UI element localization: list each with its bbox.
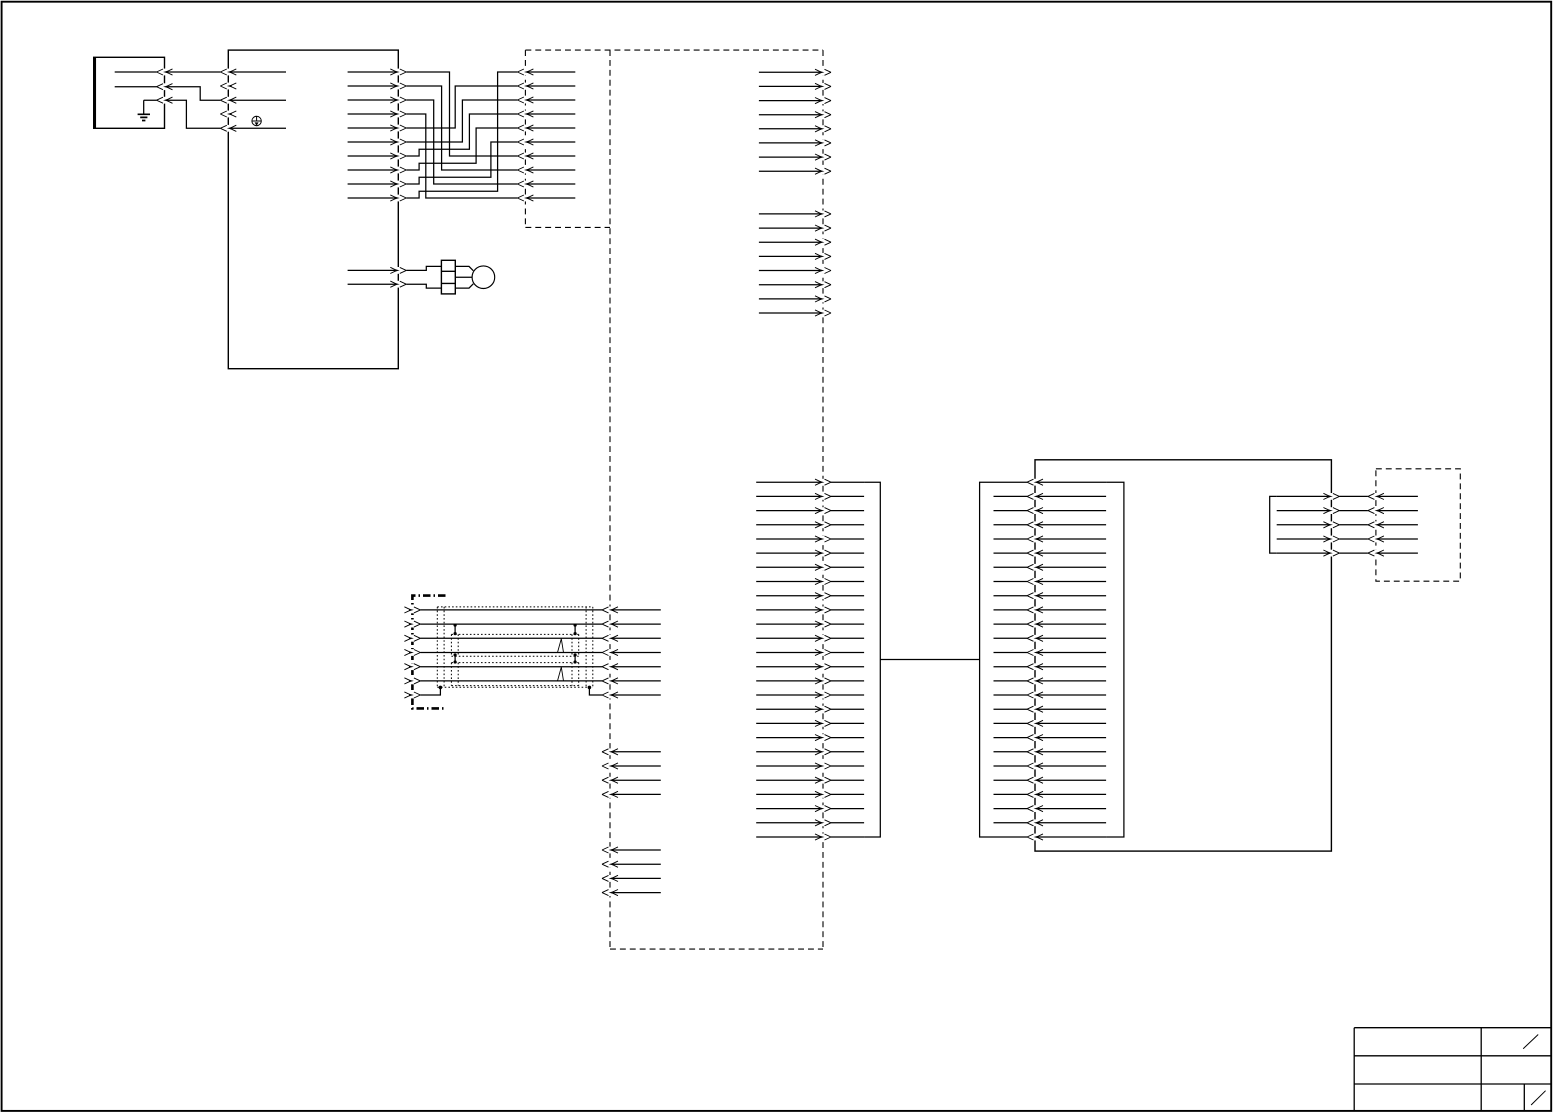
twisted-pair kink symbol 1 (558, 639, 564, 653)
wire harness W6 (U1 to connector, crossover) (348, 97, 576, 146)
connector block J1 (top-left battery box) (94, 57, 165, 128)
wire trunk (cable into U2) (994, 748, 1107, 755)
wire harness branch (to right connector) (759, 168, 831, 175)
wire trunk (harness to U2 cable) (756, 607, 864, 614)
junction dot (shield drain right) (588, 686, 592, 690)
wire shielded-cable core (404, 663, 660, 670)
wire trunk (cable into U2) (994, 678, 1107, 685)
wire harness branch group2 (to right connector) (759, 281, 831, 288)
wire harness W7 (U1 to connector, crossover) (348, 111, 576, 160)
wire trunk (cable into U2) (994, 763, 1107, 770)
wire trunk (harness to U2 cable) (756, 493, 864, 500)
harness boundary dashed segment (top horizontal) (525, 49, 823, 51)
title block slash mark 1 (1523, 1035, 1538, 1049)
wire harness branch group2 (to right connector) (759, 239, 831, 246)
wire harness W4 (U1 to connector, crossover) (348, 111, 576, 202)
wire stub at harness divider (602, 763, 661, 770)
wire shielded-cable core (404, 621, 660, 628)
wire trunk (cable into U2) (994, 819, 1107, 826)
harness boundary dashed segment (notch horizontal) (525, 226, 610, 228)
shield drain tie right 1 (574, 624, 577, 636)
wire harness W10 (U1 to connector, crossover) (348, 69, 576, 202)
wire trunk (harness to U2 cable) (756, 663, 864, 670)
wire trunk (harness to U2 cable) (756, 550, 864, 557)
wire trunk (harness to U2 cable) (756, 578, 864, 585)
shield drain tie right 2 (574, 653, 577, 663)
cable bundle bracket (central, right side) (864, 482, 880, 837)
wire trunk (cable into U2) (994, 635, 1107, 642)
wire trunk (harness to U2 cable) (756, 479, 864, 486)
wire stub at harness divider (602, 777, 661, 784)
wire trunk (cable into U2) (994, 521, 1107, 528)
wire trunk (cable into U2) (994, 564, 1107, 571)
wire lamp return - (348, 281, 442, 288)
wire harness branch group2 (to right connector) (759, 267, 831, 274)
connector pin arrow (U1 left edge, unused pin) (220, 111, 236, 118)
wire U2 output (to far-right connector) (1277, 493, 1418, 500)
wire harness branch group2 (to right connector) (759, 225, 831, 232)
wire lamp feed + (348, 266, 442, 273)
inner shield pair 1 (dotted capsule) (451, 634, 578, 656)
wire trunk (harness to U2 cable) (756, 791, 864, 798)
wire harness branch (to right connector) (759, 111, 831, 118)
wire harness W5 (U1 to connector, crossover) (348, 83, 576, 132)
wire U2 output (to far-right connector) (1277, 507, 1418, 514)
wire shielded-cable core (404, 678, 660, 685)
harness boundary dashed segment (left vertical) (524, 50, 526, 227)
wire group bracket (U2 output) (1270, 496, 1277, 553)
wire shielded-cable core (404, 607, 660, 614)
harness boundary dashed divider (center vertical) (609, 50, 611, 949)
wire shield drain (right) (589, 688, 660, 699)
wire harness branch (to right connector) (759, 125, 831, 132)
wire trunk (harness to U2 cable) (756, 734, 864, 741)
wire trunk (cable into U2) (994, 706, 1107, 713)
wire harness branch (to right connector) (759, 140, 831, 147)
wire trunk (cable into U2) (994, 649, 1107, 656)
wire trunk (harness to U2 cable) (756, 564, 864, 571)
wire trunk (cable into U2) (994, 507, 1107, 514)
outer cable shield (dotted capsule) (437, 607, 593, 687)
shield drain tie left 2 (454, 653, 457, 663)
wire trunk (harness to U2 cable) (756, 649, 864, 656)
wire trunk (cable into U2) (994, 536, 1107, 543)
wire harness branch (to right connector) (759, 97, 831, 104)
wire trunk (harness to U2 cable) (756, 805, 864, 812)
wire trunk (cable into U2) (994, 663, 1107, 670)
wire trunk (harness to U2 cable) (756, 521, 864, 528)
twisted-pair kink symbol 2 (558, 667, 564, 681)
wire trunk (cable into U2) (994, 493, 1107, 500)
wire harness branch group2 (to right connector) (759, 310, 831, 317)
wire trunk (harness to U2 cable) (756, 748, 864, 755)
wire harness W2 (U1 to connector, crossover) (348, 83, 576, 174)
far-right connector dashed box (1376, 469, 1460, 581)
wire stub at harness divider (602, 748, 661, 755)
wire net ACC (J1 pin2 to U1, jog) (115, 83, 286, 103)
wire U2 output (to far-right connector) (1277, 550, 1418, 557)
wire stub at harness divider (602, 791, 661, 798)
wire trunk (cable into U2) (994, 578, 1107, 585)
wire harness branch (to right connector) (759, 83, 831, 90)
wire harness branch group2 (to right connector) (759, 211, 831, 218)
wire trunk (harness to U2 cable) (756, 819, 864, 826)
title block table (1354, 1028, 1551, 1112)
wire U2 output (to far-right connector) (1277, 521, 1418, 528)
wire harness branch group2 (to right connector) (759, 296, 831, 303)
wire trunk (cable into U2) (994, 805, 1107, 812)
wire cable link (central bracket to U2 bracket) (880, 659, 979, 661)
lamp DS1 (bulb) (455, 266, 494, 289)
wire trunk (cable into U2) (994, 777, 1107, 784)
wire trunk (harness to U2 cable) (756, 706, 864, 713)
wire trunk (cable into U2) (994, 734, 1107, 741)
inner shield pair 2 (dotted capsule) (451, 663, 578, 686)
connector pin arrow (U1 left edge, unused pin) (220, 83, 236, 90)
wire trunk (harness to U2 cable) (756, 777, 864, 784)
wire trunk (cable into U2) (994, 720, 1107, 727)
harness boundary dashed segment (right vertical) (822, 50, 824, 949)
title block slash mark 2 (1531, 1091, 1546, 1105)
wire shielded-cable core (404, 635, 660, 642)
wire harness W8 (U1 to connector, crossover) (348, 125, 576, 174)
wire net B+ (J1 pin1 to U1) (115, 69, 286, 76)
wire ground net (J1 to U1) (144, 97, 286, 132)
wire shield drain (left) (404, 688, 440, 699)
wire trunk (harness to U2 cable) (756, 507, 864, 514)
wire stub at harness divider group2 (602, 889, 661, 896)
wire stub at harness divider group2 (602, 875, 661, 882)
wire trunk (harness to U2 cable) (756, 592, 864, 599)
shield boundary chain-line bracket (412, 596, 445, 709)
wire harness W1 (U1 to connector, crossover) (348, 69, 576, 160)
junction dot (shield drain left) (439, 686, 443, 690)
wire trunk (harness to U2 cable) (756, 678, 864, 685)
shield drain tie left 1 (454, 624, 457, 636)
wire trunk (harness to U2 cable) (756, 834, 864, 841)
wire harness W9 (U1 to connector, crossover) (348, 139, 576, 188)
wire harness branch group2 (to right connector) (759, 253, 831, 260)
cable bundle bracket (U2 side, left) (980, 482, 994, 837)
wire trunk (harness to U2 cable) (756, 635, 864, 642)
harness boundary dashed segment (bottom horizontal) (610, 948, 823, 950)
wire trunk (cable into U2) (994, 479, 1107, 486)
wire trunk (cable into U2) (994, 607, 1107, 614)
wire trunk (cable into U2) (994, 791, 1107, 798)
wire harness W3 (U1 to connector, crossover) (348, 97, 576, 188)
wire shielded-cable core (404, 649, 660, 656)
wire trunk (harness to U2 cable) (756, 621, 864, 628)
wire trunk (cable into U2) (994, 592, 1107, 599)
lamp connector (3-way terminal block) (441, 260, 455, 294)
right ECU box U2 (1035, 460, 1331, 851)
ground symbol (138, 114, 150, 120)
wire trunk (harness to U2 cable) (756, 536, 864, 543)
wire trunk (cable into U2) (994, 692, 1107, 699)
wire trunk (harness to U2 cable) (756, 720, 864, 727)
wire trunk (cable into U2) (994, 550, 1107, 557)
ECU main box U1 (228, 50, 398, 369)
earth symbol (circle with cross) (252, 116, 261, 125)
wire stub at harness divider group2 (602, 847, 661, 854)
wire harness branch (to right connector) (759, 69, 831, 76)
wire trunk (harness to U2 cable) (756, 763, 864, 770)
wire U2 output (to far-right connector) (1277, 536, 1418, 543)
wire trunk (harness to U2 cable) (756, 692, 864, 699)
wire trunk (cable into U2) (994, 621, 1107, 628)
wire stub at harness divider group2 (602, 861, 661, 868)
cable bundle bracket (inside U2) (1106, 482, 1124, 837)
wire harness branch (to right connector) (759, 154, 831, 161)
wire trunk (cable into U2) (994, 834, 1107, 841)
